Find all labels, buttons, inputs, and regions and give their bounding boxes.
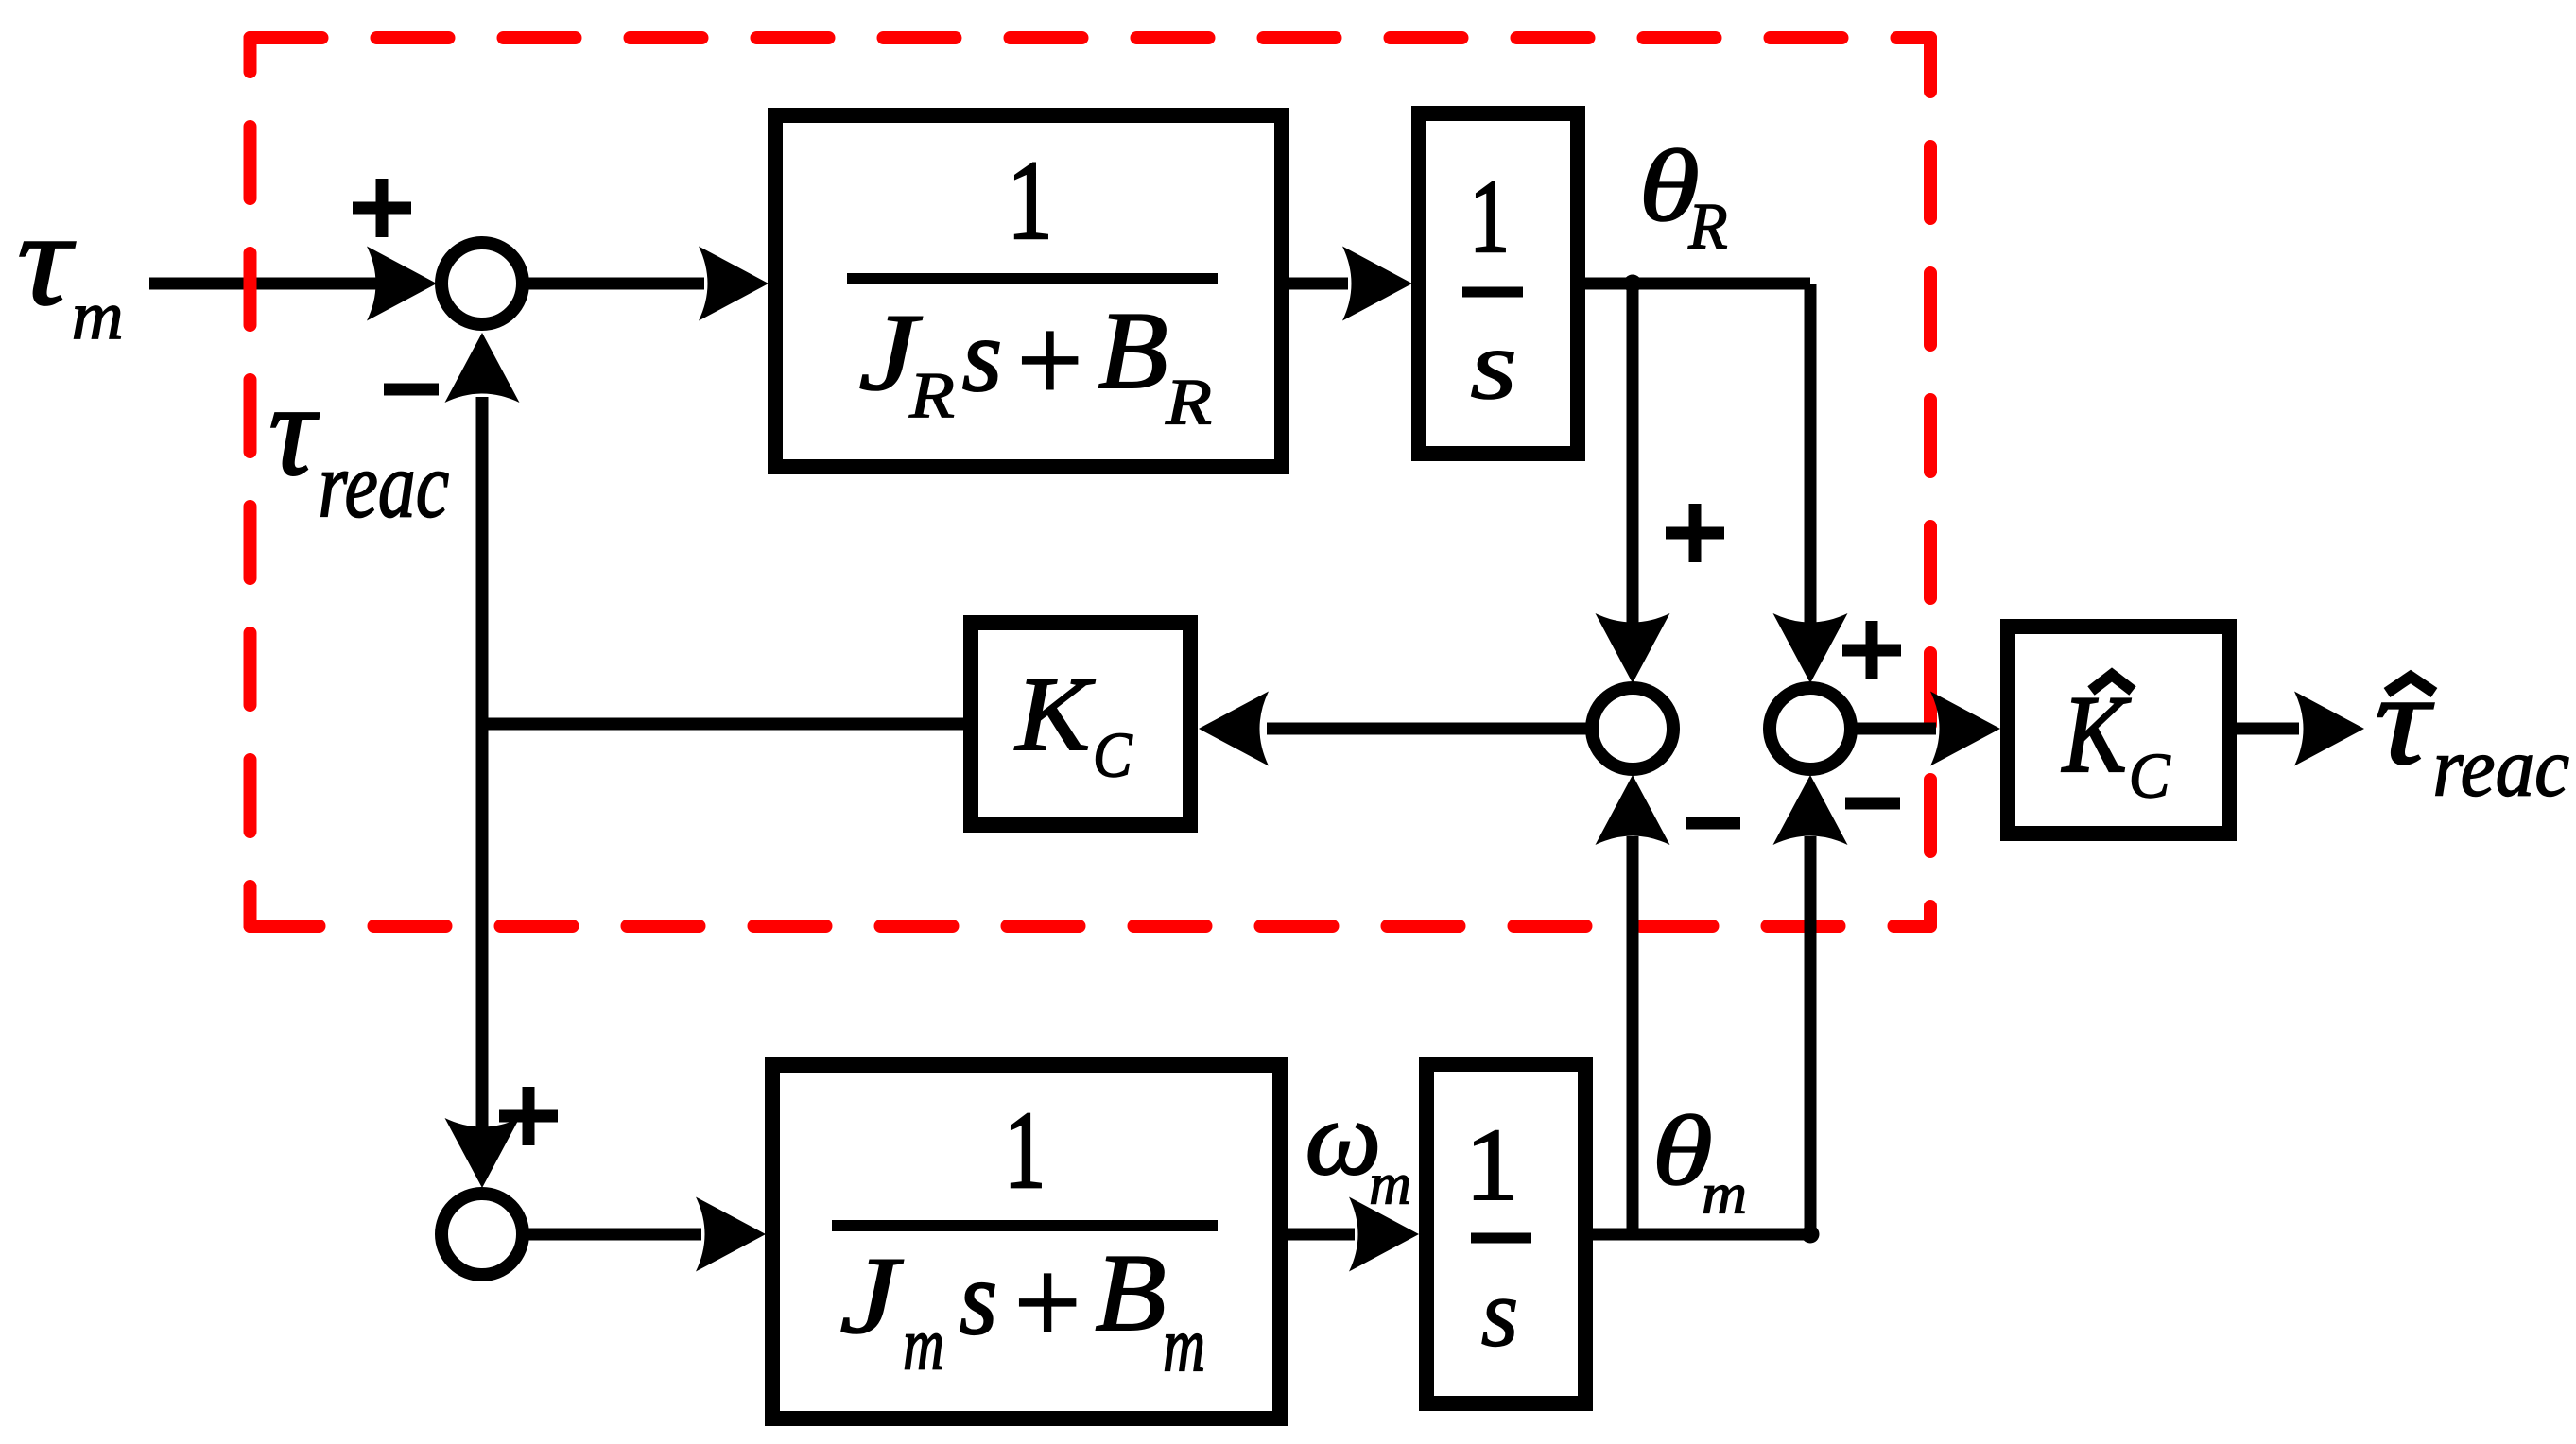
plus sign at S3 top input [1842, 621, 1901, 679]
svg-text:reac: reac [319, 434, 450, 537]
block: integrator 1/s (rotor) [1419, 113, 1578, 454]
svg-text:J: J [839, 1234, 904, 1356]
svg-text:reac: reac [2432, 720, 2569, 814]
label theta_R [1639, 129, 1700, 243]
wire: S1 to block 1/(J_R s + B_R) [523, 278, 704, 290]
block: K_C spring constant [971, 623, 1190, 825]
plus sign at S2 top input [1666, 504, 1724, 562]
block: 1/(J_m s + B_m) motor dynamics [772, 1065, 1280, 1418]
node: junction dot on theta_R line [1624, 275, 1642, 293]
wire: theta_m rise to summing junction S3 (-) [1805, 836, 1817, 1234]
svg-text:s: s [960, 1240, 997, 1357]
svg-text:m: m [72, 277, 124, 354]
wire: vertical feedback line tau_reac [476, 397, 489, 1129]
svg-text:s: s [962, 297, 1002, 413]
label tau_m [17, 183, 76, 333]
minus sign at S2 bottom input [1686, 817, 1740, 830]
wire: theta_R drop to summing junction S2 (+) [1627, 284, 1639, 624]
svg-text:R: R [1165, 366, 1212, 438]
svg-text:B: B [1096, 1231, 1167, 1354]
wire: tau_m input to summing junction S1 [149, 278, 378, 290]
svg-text:s: s [1470, 310, 1517, 421]
wire: omega_m / theta_m line from bottom 1/s to corner [1593, 1229, 1810, 1241]
svg-text:τ: τ [17, 183, 76, 333]
label omega_m [1305, 1079, 1382, 1197]
hat accent of tau_reac hat [2387, 677, 2434, 693]
hat accent of K_C hat [2091, 675, 2133, 691]
svg-text:m: m [903, 1304, 944, 1385]
svg-text:1: 1 [1004, 1090, 1046, 1211]
svg-text:1: 1 [1007, 137, 1053, 263]
wire: block 1/(J_R s+B_R) to block 1/s [1289, 278, 1348, 290]
minus sign at S3 bottom input [1845, 798, 1900, 810]
svg-text:R: R [1687, 190, 1727, 262]
wire: theta_R drop to summing junction S3 (+) [1805, 284, 1817, 624]
wire: S2 output to K_C block (leftward) [1267, 723, 1587, 735]
label theta_m [1652, 1095, 1713, 1206]
svg-text:τ: τ [2375, 647, 2434, 792]
svg-text:R: R [908, 359, 955, 431]
svg-text:C: C [1093, 720, 1132, 791]
svg-text:τ: τ [268, 356, 319, 503]
svg-text:+: + [1014, 1235, 1081, 1370]
red dash segment crossing tau_m input line [244, 254, 257, 318]
wire: S3 output to K_C hat block [1857, 723, 1936, 735]
block: K_C hat estimated spring constant [2008, 627, 2229, 834]
svg-text:m: m [1369, 1150, 1411, 1217]
svg-text:B: B [1098, 289, 1168, 412]
minus sign at S1 feedback input [384, 384, 439, 396]
svg-text:m: m [1702, 1161, 1747, 1226]
svg-text:m: m [1163, 1301, 1205, 1387]
label tau_reac hat (output) [2375, 647, 2434, 792]
wire: S4 to block 1/(J_m s + B_m) [528, 1229, 701, 1241]
wire: K_C hat output to tau_reac hat [2237, 723, 2299, 735]
plus sign at S1 input [353, 179, 411, 237]
wire: K_C output to feedback node [482, 718, 963, 731]
label tau_reac [268, 356, 319, 503]
svg-text:1: 1 [1469, 160, 1510, 275]
wire: block 1/(J_m s+B_m) to bottom 1/s [1288, 1229, 1355, 1241]
summing junction S1 [441, 243, 523, 324]
red dashed boundary of estimated plant [251, 38, 1931, 926]
summing junction S4 [441, 1194, 523, 1275]
svg-text:K: K [1014, 656, 1096, 772]
summing junction S2 [1592, 688, 1673, 769]
svg-text:1: 1 [1465, 1108, 1519, 1222]
node: junction dot on theta_m line [1802, 1226, 1820, 1244]
block: integrator 1/s (motor) [1426, 1064, 1585, 1403]
svg-text:C: C [2129, 742, 2170, 812]
svg-text:s: s [1481, 1260, 1519, 1367]
svg-text:+: + [1017, 294, 1083, 428]
wire: theta_R line from 1/s to corner [1585, 278, 1810, 290]
plus sign at S4 input [499, 1087, 558, 1145]
block: 1/(J_R s + B_R) rotor dynamics [775, 115, 1282, 467]
wire: theta_m rise to summing junction S2 (-) [1627, 836, 1639, 1234]
summing junction S3 [1770, 688, 1851, 769]
